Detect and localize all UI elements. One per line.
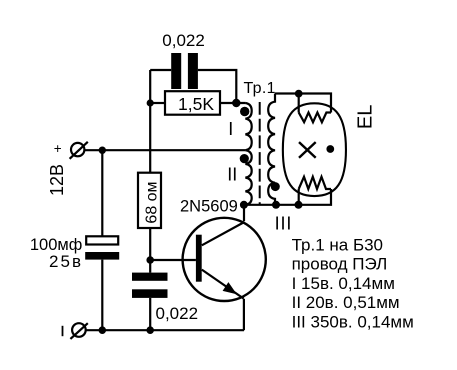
node lamp top junction xyxy=(295,90,303,98)
svg-text:1,5K: 1,5K xyxy=(178,94,214,114)
node winding II phase dot xyxy=(240,154,249,163)
node winding III phase dot xyxy=(271,182,280,191)
svg-text:I: I xyxy=(228,119,233,139)
wire filter cap branch lower xyxy=(101,260,103,331)
transformer T1 core xyxy=(259,102,261,205)
wire lamp bottom xyxy=(244,189,331,205)
transformer T1 winding III xyxy=(268,94,275,205)
wire collector lead xyxy=(243,205,245,221)
wire lamp top xyxy=(275,94,331,113)
wire emitter lead xyxy=(243,299,245,330)
capacitor C2 100мф 25в electrolytic xyxy=(85,236,119,259)
wire C1 left lead xyxy=(150,69,171,71)
resistor R1 1,5K xyxy=(150,91,245,115)
lamp EL gas dot xyxy=(326,145,334,153)
lamp EL envelope xyxy=(283,103,346,196)
svg-text:12В: 12В xyxy=(47,164,67,196)
svg-text:Тр.1: Тр.1 xyxy=(244,80,276,97)
node R1 left junction xyxy=(147,99,154,106)
node base junction xyxy=(146,256,154,264)
resistor R2 68 ом xyxy=(138,173,161,228)
svg-text:Тр.1 на Б30: Тр.1 на Б30 xyxy=(292,235,383,254)
wire C1 right lead xyxy=(198,70,236,103)
lamp EL bottom filament xyxy=(299,177,331,189)
transformer T1 winding II xyxy=(245,150,251,205)
node lamp bottom junction xyxy=(295,201,303,209)
svg-text:II 20в. 0,51мм: II 20в. 0,51мм xyxy=(292,293,400,312)
svg-text:III 350в. 0,14мм: III 350в. 0,14мм xyxy=(292,313,414,332)
svg-text:+: + xyxy=(54,141,62,156)
wire filter cap branch upper xyxy=(101,150,103,236)
wire lamp bottom left lead xyxy=(298,189,300,205)
svg-text:0,022: 0,022 xyxy=(162,31,205,50)
svg-text:0,022: 0,022 xyxy=(156,304,199,323)
lamp EL gas discharge X mark xyxy=(299,142,316,158)
node supply junction xyxy=(99,147,106,154)
svg-text:68 ом: 68 ом xyxy=(144,181,161,223)
capacitor C3 0,022 xyxy=(132,273,168,298)
wire C3 bottom lead xyxy=(149,298,151,330)
node winding I phase dot xyxy=(240,107,249,116)
svg-text:EL: EL xyxy=(354,105,376,129)
lamp EL top filament xyxy=(299,113,331,123)
wire negative rail xyxy=(86,329,244,331)
svg-text:II: II xyxy=(227,165,237,185)
node winding III bottom junction xyxy=(272,201,280,209)
svg-text:I 15в. 0,14мм: I 15в. 0,14мм xyxy=(292,274,395,293)
wire lamp top left lead xyxy=(298,94,300,113)
wire +12V rail xyxy=(84,149,246,151)
note text block xyxy=(292,235,414,331)
node collector net junction xyxy=(240,201,248,209)
svg-text:III: III xyxy=(275,213,293,233)
svg-text:2N5609: 2N5609 xyxy=(180,197,238,215)
label minus tick xyxy=(62,326,64,336)
node negative rail C3 junction xyxy=(146,326,154,334)
wire left column vertical xyxy=(149,70,151,173)
svg-text:25в: 25в xyxy=(49,252,83,271)
transformer T1 winding I xyxy=(245,103,251,150)
terminal X2 negative input xyxy=(70,323,87,339)
svg-text:провод ПЭЛ: провод ПЭЛ xyxy=(292,255,388,274)
wire base xyxy=(150,259,196,261)
node negative rail cap junction xyxy=(99,326,107,334)
wire R2 bottom lead xyxy=(149,228,151,273)
node R1 right junction xyxy=(232,99,240,107)
transistor Q1 2N5609 xyxy=(183,218,266,301)
terminal X1 positive input xyxy=(70,142,88,159)
capacitor C1 0,022 xyxy=(171,53,198,89)
